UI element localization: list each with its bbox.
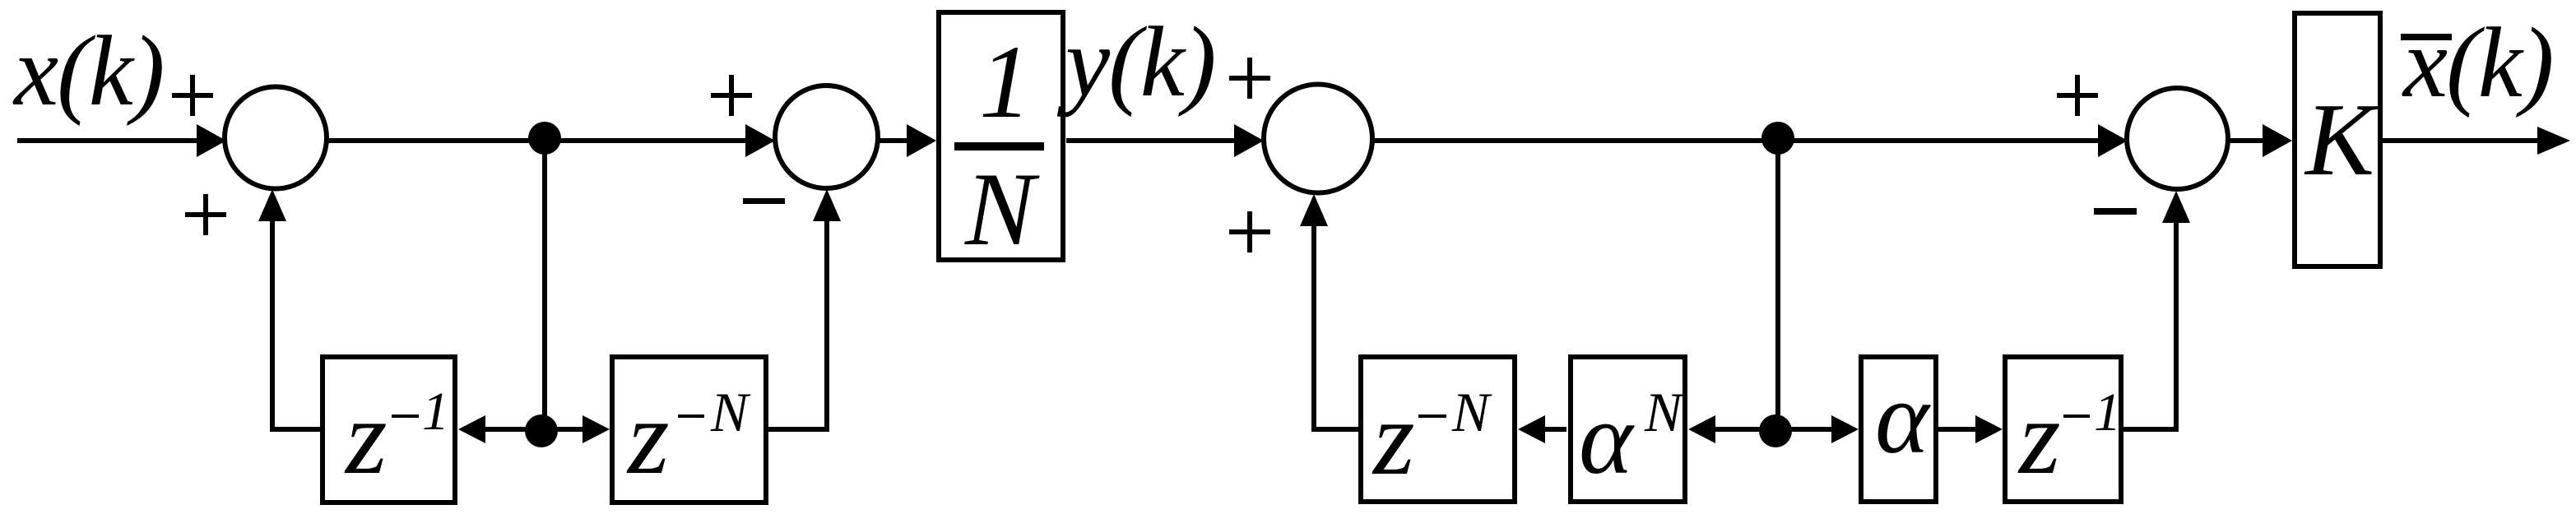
arrow into delay ZNR bbox=[1518, 415, 1545, 443]
wire summer S2 to block 1/N bbox=[878, 138, 909, 143]
fraction bar bbox=[954, 142, 1044, 150]
label xbar(k) overbar bbox=[2401, 34, 2452, 40]
text z^-N right bbox=[1372, 379, 1492, 498]
wire delay Z1R to summer S4 feedback bbox=[2123, 221, 2176, 429]
arrow into delay ZNL bbox=[583, 415, 610, 443]
arrow into summer S1 bbox=[197, 124, 226, 157]
svg-text:N: N bbox=[710, 381, 751, 443]
arrow into summer S2 bbox=[745, 124, 775, 157]
text z^-1 right bbox=[2017, 378, 2121, 497]
delay block Z1L (z^-1 left) bbox=[323, 357, 455, 502]
summer S4 bbox=[2127, 88, 2228, 189]
output arrow bbox=[2537, 127, 2570, 155]
minus sign at summer S4 feedback input bbox=[2094, 208, 2137, 215]
wire multiplier AL to delay Z1R bbox=[1938, 427, 1977, 432]
arrow into block 1/N bbox=[907, 124, 936, 157]
text alpha^N bbox=[1579, 381, 1685, 496]
arrow into summer S2 bottom bbox=[813, 189, 841, 221]
svg-text:α: α bbox=[1579, 382, 1635, 496]
wire summer S4 to block K bbox=[2228, 138, 2265, 143]
plus sign at summer S1 feedback input bbox=[185, 194, 226, 235]
block 1/N bbox=[939, 12, 1063, 260]
wire summer S1 to summer S2 bbox=[327, 138, 748, 143]
svg-text:x(k): x(k) bbox=[12, 16, 164, 127]
svg-text:1: 1 bbox=[979, 25, 1032, 140]
plus sign at summer S4 main input bbox=[2057, 75, 2098, 116]
svg-text:α: α bbox=[1875, 362, 1931, 475]
wire node D to multiplier AL bbox=[1790, 427, 1834, 432]
wire input bbox=[17, 138, 197, 143]
svg-text:z: z bbox=[1372, 379, 1415, 498]
arrow into summer S1 bottom bbox=[258, 189, 286, 221]
plus sign at summer S1 main input bbox=[172, 75, 213, 116]
junction node A bbox=[528, 122, 561, 155]
wire node A down bbox=[542, 141, 547, 429]
delay block Z1R (z^-1 right) bbox=[2005, 357, 2121, 502]
junction node B bbox=[1761, 122, 1794, 155]
arrow into summer S3 bbox=[1234, 124, 1264, 157]
delay block ZNL (z^-N left) bbox=[612, 357, 766, 502]
plus sign at summer S3 main input bbox=[1229, 58, 1270, 99]
wire delay ZNL to summer S2 feedback bbox=[766, 220, 827, 429]
junction node D bbox=[1759, 414, 1792, 447]
arrow into multiplier AN bbox=[1688, 415, 1715, 443]
svg-text:y(k): y(k) bbox=[1056, 7, 1215, 118]
wire delay ZNR to summer S3 feedback bbox=[1314, 225, 1361, 429]
svg-text:K: K bbox=[2304, 83, 2379, 197]
svg-text:N: N bbox=[1451, 381, 1492, 443]
plus sign at summer S2 main input bbox=[711, 75, 752, 116]
text z^-N left bbox=[626, 378, 751, 497]
arrow into delay Z1R bbox=[1975, 415, 2003, 443]
svg-text:x(k): x(k) bbox=[2402, 7, 2553, 118]
arrow into summer S4 bbox=[2098, 124, 2128, 157]
arrow into summer S3 bottom bbox=[1300, 194, 1328, 226]
wire multiplier AN to delay ZNR bbox=[1543, 427, 1566, 432]
arrow into summer S4 bottom bbox=[2162, 191, 2190, 223]
wire delay Z1L to summer S1 feedback bbox=[272, 220, 321, 429]
wire node B down bbox=[1775, 141, 1780, 429]
svg-text:1: 1 bbox=[422, 382, 449, 442]
arrow into delay Z1L bbox=[458, 415, 485, 443]
summer S3 bbox=[1264, 85, 1372, 193]
summer S1 bbox=[225, 87, 327, 189]
multiplier block AL (alpha) bbox=[1861, 357, 1936, 502]
wire between delay Z1L and delay ZNL bbox=[484, 427, 584, 432]
block K bbox=[2295, 13, 2380, 266]
wire block 1/N to summer S3 bbox=[1066, 138, 1237, 143]
multiplier block AN (alpha^N) bbox=[1571, 357, 1685, 502]
minus sign at summer S2 feedback input bbox=[743, 198, 785, 204]
wire block K to output bbox=[2383, 138, 2539, 143]
plus sign at summer S3 feedback input bbox=[1229, 211, 1270, 252]
text z^-1 left bbox=[344, 378, 449, 497]
svg-text:1: 1 bbox=[2094, 382, 2121, 442]
svg-text:z: z bbox=[626, 378, 670, 497]
svg-text:N: N bbox=[964, 152, 1040, 267]
svg-text:z: z bbox=[344, 378, 388, 497]
delay block ZNR (z^-N right) bbox=[1361, 357, 1515, 502]
summer S2 bbox=[775, 86, 878, 188]
junction node C bbox=[525, 414, 558, 447]
wire summer S3 to summer S4 bbox=[1372, 138, 2100, 143]
svg-text:N: N bbox=[1644, 381, 1685, 443]
svg-text:z: z bbox=[2017, 378, 2061, 497]
arrow into block K bbox=[2263, 124, 2292, 157]
arrow into multiplier AL bbox=[1831, 415, 1859, 443]
wire node D to multiplier AN bbox=[1714, 427, 1762, 432]
